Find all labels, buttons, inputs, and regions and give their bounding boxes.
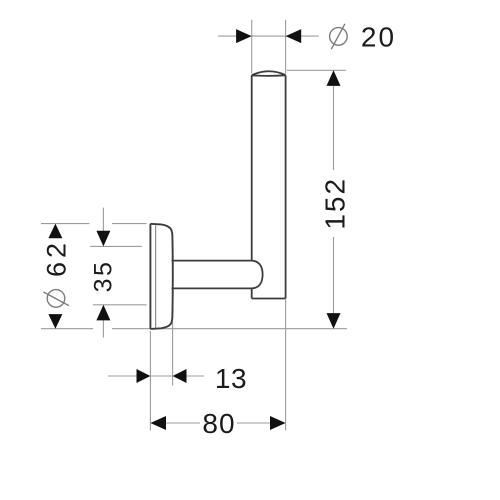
tube bottom edge [252,298,286,300]
35 up arrow [96,305,110,321]
extension line left of phi20 dim [251,20,253,74]
35 dimension line lower tail [102,319,104,338]
152 down arrow [327,313,341,329]
80 right arrow [270,416,286,430]
152 up arrow [327,70,341,86]
13 left arrow [137,369,151,383]
80 left arrow [150,416,166,430]
tube left edge [251,75,253,260]
phi62 up arrow [48,224,62,239]
13 right arrow [173,369,187,383]
svg-text:62: 62 [42,239,72,277]
35 down arrow [96,231,110,247]
35 dimension line upper tail [102,208,104,233]
80 right extension line (tube edge) [285,300,287,431]
152 top extension line [287,69,346,71]
13 dimension line tails [108,375,137,377]
arm bottom edge [172,287,253,289]
flange outline [150,224,172,329]
tube top cap outer arc [252,71,286,75]
svg-text:20: 20 [361,22,396,53]
svg-text:80: 80 [202,408,235,439]
phi20 right arrow [286,29,302,43]
13 left extension line [149,331,151,431]
flange rim line [155,225,157,327]
flange silhouette [150,224,172,329]
phi62 down arrow [48,314,62,329]
phi20 dimension line [218,35,319,37]
tube top cap rim line [252,74,286,77]
tube body outline [252,71,286,298]
152 dimension line [333,86,335,170]
svg-text:13: 13 [215,363,247,394]
arm outline [172,261,263,289]
arm rounded end cap [252,261,263,289]
152/62 bottom extension line [41,328,93,330]
svg-text:152: 152 [320,177,351,230]
35 bottom extension line [93,304,147,306]
80 dimension line [165,422,200,424]
tube lower-left step edge [251,288,253,298]
arm top edge [172,260,252,262]
phi20 left arrow [236,29,252,43]
svg-text:35: 35 [90,260,118,293]
phi62 diameter symbol [44,290,69,308]
phi62 top extension line [41,223,90,225]
13 right extension line [172,322,174,386]
extension line right of phi20 dim [285,20,287,74]
phi20 diameter symbol [330,24,348,49]
35 top extension line [90,245,142,247]
flange face edge [149,224,151,329]
tube right edge [285,75,287,298]
